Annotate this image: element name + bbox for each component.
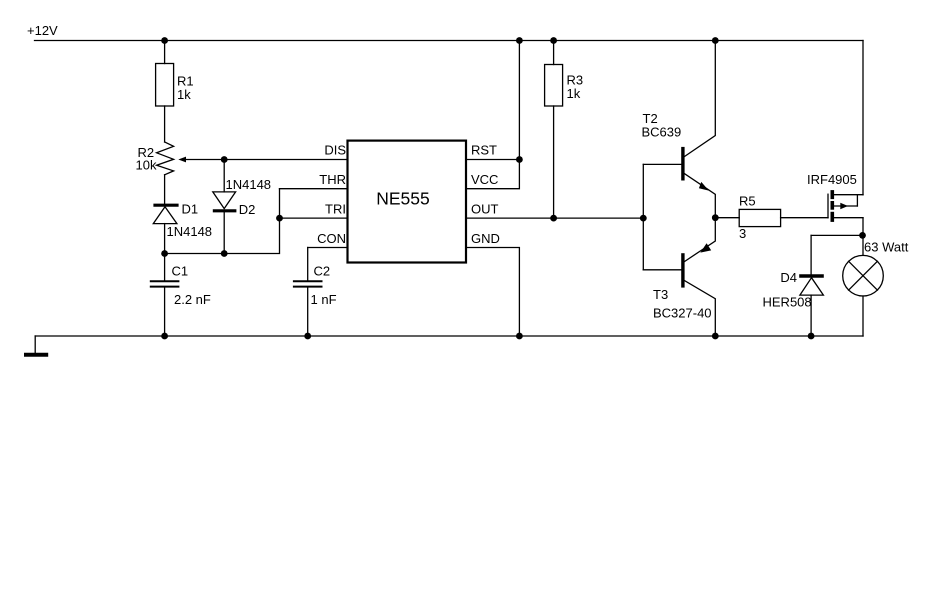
- pin THR label: [319, 172, 346, 187]
- wire +12V top rail: [35, 40, 864, 42]
- transistor T3 BC327-40: [643, 218, 715, 336]
- op-amp U1 NE555 box: [348, 141, 467, 263]
- svg-text:C2: C2: [314, 264, 331, 279]
- svg-text:NE555: NE555: [376, 189, 430, 209]
- wire TRI pin: [280, 217, 348, 219]
- diode D2 1N4148: [213, 160, 271, 254]
- wire GND pin to bottom rail: [466, 248, 519, 337]
- diode D4 HER508: [763, 235, 824, 336]
- svg-text:D1: D1: [182, 202, 199, 217]
- svg-text:2.2 nF: 2.2 nF: [174, 292, 211, 307]
- svg-text:THR: THR: [319, 172, 346, 187]
- lamp 63 Watt: [843, 240, 909, 337]
- svg-text:BC327-40: BC327-40: [653, 306, 712, 321]
- svg-text:R5: R5: [739, 194, 756, 209]
- svg-text:IRF4905: IRF4905: [807, 172, 857, 187]
- pin RST label: [471, 143, 497, 158]
- wire RST pin to rail branch: [466, 159, 519, 161]
- node +12V label: [27, 23, 58, 38]
- pin TRI label: [325, 202, 346, 217]
- resistor R1: [156, 41, 194, 143]
- svg-text:CON: CON: [317, 231, 346, 246]
- svg-text:VCC: VCC: [471, 172, 498, 187]
- wire base branch vertical: [642, 164, 644, 269]
- wire wiper to DIS pin: [185, 159, 348, 161]
- transistor Q1 IRF4905 MOSFET: [807, 172, 863, 222]
- wire VCC pin to rail branch: [466, 41, 519, 189]
- svg-text:+12V: +12V: [27, 23, 58, 38]
- potentiometer R2 10k: [136, 142, 174, 175]
- diode D1 1N4148: [153, 175, 212, 254]
- wire OUT pin to driver bases: [466, 217, 643, 219]
- svg-text:TRI: TRI: [325, 202, 346, 217]
- svg-text:3: 3: [739, 226, 746, 241]
- svg-text:D4: D4: [780, 270, 797, 285]
- svg-text:63 Watt: 63 Watt: [864, 240, 909, 255]
- svg-text:T3: T3: [653, 287, 668, 302]
- capacitor C2 1 nF: [293, 248, 337, 337]
- pin GND label: [471, 231, 500, 246]
- svg-text:RST: RST: [471, 143, 497, 158]
- svg-text:HER508: HER508: [763, 295, 812, 310]
- wire lamp node to D4: [811, 234, 863, 236]
- resistor R5 value 3: [739, 194, 781, 242]
- svg-text:DIS: DIS: [324, 143, 346, 158]
- wire MOSFET drain down to lamp node: [862, 218, 864, 256]
- R2 wiper arrow: [178, 157, 186, 163]
- wire CON pin: [308, 247, 348, 249]
- resistor R3: [545, 41, 584, 219]
- svg-text:OUT: OUT: [471, 202, 499, 217]
- wire right vertical from rail to MOSFET source: [862, 41, 864, 195]
- svg-text:1N4148: 1N4148: [226, 177, 272, 192]
- pin CON label: [317, 231, 346, 246]
- svg-text:1 nF: 1 nF: [311, 292, 337, 307]
- wire emitter node to R5: [715, 217, 739, 219]
- svg-text:10k: 10k: [136, 158, 157, 173]
- svg-text:GND: GND: [471, 231, 500, 246]
- svg-text:C1: C1: [172, 264, 189, 279]
- svg-text:1N4148: 1N4148: [167, 224, 213, 239]
- node junction dots: [161, 37, 866, 339]
- capacitor C1 2.2 nF: [150, 254, 211, 337]
- wire R5 to MOSFET gate: [781, 217, 828, 219]
- transistor T2 BC639: [642, 41, 716, 218]
- svg-text:D2: D2: [239, 202, 256, 217]
- pin DIS label: [324, 143, 346, 158]
- wire bottom ground rail: [35, 335, 863, 337]
- ground symbol: [24, 336, 48, 355]
- wire THR pin: [280, 188, 348, 190]
- wire diode bottoms to TRI branch: [165, 189, 280, 254]
- svg-text:BC639: BC639: [642, 125, 682, 140]
- pin VCC label: [471, 172, 498, 187]
- svg-text:1k: 1k: [567, 86, 581, 101]
- pin OUT label: [471, 202, 499, 217]
- svg-text:1k: 1k: [177, 87, 191, 102]
